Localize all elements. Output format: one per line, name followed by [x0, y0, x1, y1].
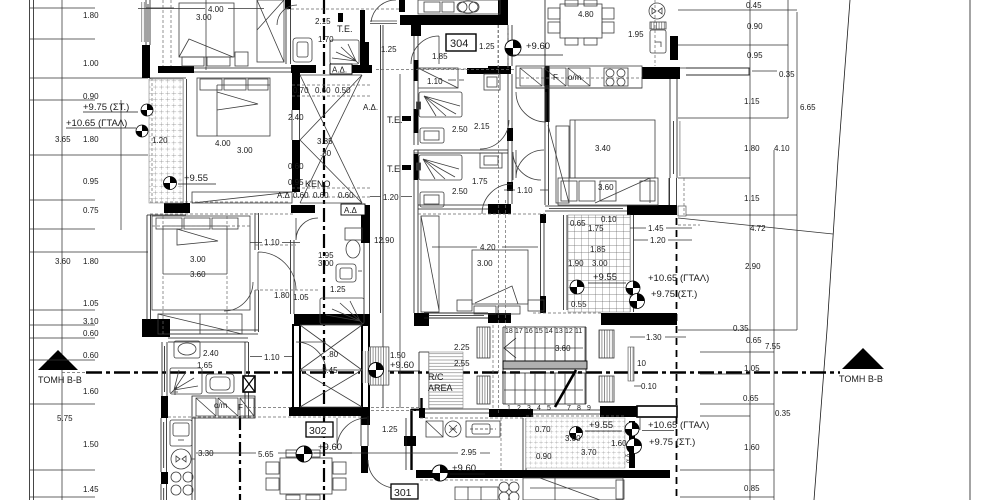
- elevator X box lower: [300, 370, 362, 407]
- svg-text:7.55: 7.55: [765, 342, 781, 351]
- wall elevator bottom band: [289, 407, 370, 416]
- dashed line top rooms: [163, 0, 516, 70]
- wall window right bedroom bottom: [545, 206, 627, 211]
- black X box bath-bl: [243, 376, 255, 392]
- lightwell left line: [381, 25, 384, 408]
- stair landing bar: [503, 361, 587, 369]
- wall counter right apt bottom line: [516, 87, 642, 89]
- svg-text:1.10: 1.10: [264, 238, 280, 247]
- stair walking lines: [504, 348, 583, 390]
- balcony top-left tile hatch: [149, 79, 183, 203]
- svg-text:3.85: 3.85: [317, 137, 333, 146]
- svg-text:4: 4: [537, 405, 541, 412]
- leader bottom-right parapet: [640, 417, 674, 431]
- svg-text:1.50: 1.50: [83, 440, 99, 449]
- counter boxes o/m F bottom-left: [196, 398, 254, 416]
- svg-text:1.15: 1.15: [744, 97, 760, 106]
- svg-text:1.90: 1.90: [568, 259, 584, 268]
- wall shaft right top vertical b: [360, 42, 369, 68]
- svg-text:1.80: 1.80: [274, 291, 290, 300]
- wall stair bottom left: [489, 409, 533, 417]
- svg-text:1.80: 1.80: [83, 257, 99, 266]
- shower bath-bl: [170, 368, 202, 395]
- svg-text:1.05: 1.05: [293, 293, 309, 302]
- wall WC bottom band: [294, 314, 370, 325]
- svg-text:1.20: 1.20: [383, 193, 399, 202]
- window sill hatch right ext: [677, 121, 681, 176]
- dashed lines shaft rows: [292, 85, 370, 197]
- cabinet 304 right: [484, 74, 500, 90]
- left page border double line: [30, 0, 34, 500]
- wall bath-bl right: [245, 342, 249, 418]
- wall window right ext: [670, 117, 677, 178]
- door arc 302: [337, 418, 367, 448]
- door arc bed3: [258, 252, 296, 290]
- door arc bathroom 304: [480, 120, 509, 149]
- svg-text:1.75: 1.75: [588, 224, 604, 233]
- door threshold corridor top: [370, 21, 397, 24]
- wall shaft left v2: [292, 140, 300, 192]
- svg-text:18: 18: [505, 328, 513, 335]
- svg-text:15: 15: [535, 328, 543, 335]
- svg-text:0.60: 0.60: [313, 191, 329, 200]
- wall corridor bridge outline: [369, 347, 389, 385]
- svg-text:4.20: 4.20: [480, 243, 496, 252]
- svg-text:5.65: 5.65: [258, 450, 274, 459]
- svg-text:2.45: 2.45: [322, 366, 338, 375]
- small ledge box right of corner: [678, 206, 686, 216]
- pier hatch bottom-right: [599, 376, 614, 402]
- svg-text:o/m: o/m: [214, 401, 228, 410]
- svg-text:1: 1: [507, 405, 511, 412]
- wall stair bottom right: [600, 406, 637, 417]
- wall 302 right vertical: [361, 446, 368, 473]
- sofa-bed 303: [457, 250, 544, 314]
- wall WC mid left: [291, 240, 295, 314]
- wall elevator right: [362, 325, 369, 408]
- benchmark +10.65 balcony-b: [625, 422, 639, 436]
- svg-text:0.10: 0.10: [601, 215, 617, 224]
- svg-text:1.60: 1.60: [83, 387, 99, 396]
- svg-text:2.40: 2.40: [203, 349, 219, 358]
- svg-text:16: 16: [525, 328, 533, 335]
- svg-text:1.45: 1.45: [83, 485, 99, 494]
- property boundary slant line: [814, 0, 850, 500]
- svg-text:0.70: 0.70: [293, 86, 309, 95]
- svg-text:1.60: 1.60: [611, 439, 627, 448]
- benchmark +9.60 top center: [505, 40, 521, 56]
- tub bath-bl: [206, 374, 234, 393]
- dashed bold vertical right balcony projection: [676, 218, 678, 500]
- wall kitchen column right: [192, 418, 195, 500]
- svg-text:3.00: 3.00: [592, 259, 608, 268]
- room box 302: [306, 422, 333, 437]
- wall right apt vertical top: [670, 36, 678, 60]
- svg-text:3.10: 3.10: [83, 317, 99, 326]
- svg-text:+9.75 (ΣΤ.): +9.75 (ΣΤ.): [649, 437, 695, 448]
- wall bed1/bath divider: [286, 0, 291, 64]
- wall bottom long band: [416, 470, 670, 478]
- wall bed3 right + door gap: [255, 213, 259, 332]
- svg-text:3.70: 3.70: [581, 448, 597, 457]
- closet 301: [455, 487, 498, 500]
- svg-text:3.40: 3.40: [595, 144, 611, 153]
- level +9.60 top: [510, 41, 563, 55]
- wall elevator left: [293, 325, 300, 408]
- svg-text:+9.55: +9.55: [589, 420, 613, 431]
- svg-text:1.80: 1.80: [83, 11, 99, 20]
- wall 304 left black segs: [414, 60, 419, 81]
- bed 301 bottom: [523, 478, 624, 500]
- stair arrow diagonal: [555, 370, 576, 407]
- wall balcony1 outline: [150, 78, 186, 203]
- level +9.55 balcony1: [178, 173, 216, 184]
- wall landing bottom thin: [424, 409, 489, 413]
- parapet box bottom right: [637, 406, 677, 417]
- svg-text:0.65: 0.65: [746, 336, 762, 345]
- wall shaft right top vertical a: [360, 10, 365, 42]
- svg-text:7: 7: [567, 405, 571, 412]
- door arc corridor top: [371, 0, 396, 22]
- benchmark +10.65 balcony-c: [626, 281, 640, 295]
- svg-text:Α.Δ.: Α.Δ.: [332, 66, 347, 75]
- wall 304 notch: [411, 25, 421, 36]
- svg-text:9: 9: [587, 405, 591, 412]
- level +9.55 balcony-c: [588, 272, 626, 283]
- wall right apt mid outline (door): [669, 178, 677, 205]
- wall window 303 bottom: [424, 313, 488, 318]
- benchmark +9.75 balcony-b: [627, 439, 642, 454]
- benchmark +9.75 left: [141, 104, 153, 116]
- svg-text:1.70: 1.70: [318, 35, 334, 44]
- wall window left top: [146, 0, 150, 45]
- benchmark +9.55 balcony-c: [570, 280, 584, 294]
- benchmark +9.60 corridor: [369, 363, 384, 378]
- svg-text:8: 8: [577, 405, 581, 412]
- svg-text:TOMH B-B: TOMH B-B: [839, 374, 883, 384]
- wall window left bottom: [161, 484, 167, 500]
- svg-text:1.10: 1.10: [517, 186, 533, 195]
- elevator X box upper: [300, 325, 362, 370]
- svg-text:1.00: 1.00: [83, 59, 99, 68]
- wall WC mid right: [364, 243, 370, 314]
- stair walk chevron: [504, 338, 516, 358]
- line top-left room: [146, 7, 174, 9]
- right dim lines vertical: [400, 0, 797, 500]
- svg-text:0.85: 0.85: [744, 484, 760, 493]
- svg-text:3.00: 3.00: [190, 255, 206, 264]
- wall stair top window: [424, 313, 488, 318]
- svg-text:1.75: 1.75: [472, 177, 488, 186]
- AD box top: [330, 64, 352, 75]
- wall 303 bottom seg: [488, 313, 511, 323]
- svg-text:3.65: 3.65: [55, 135, 71, 144]
- 302 kitchen F + sink circle: [426, 421, 500, 437]
- svg-text:1.80: 1.80: [744, 144, 760, 153]
- svg-text:1.15: 1.15: [744, 194, 760, 203]
- svg-text:+9.60: +9.60: [526, 41, 550, 52]
- wall right apt left: [545, 0, 549, 205]
- wall shaft corner bottom-left: [291, 205, 315, 213]
- dim leaders small: [250, 80, 548, 243]
- closet 304 diag: [418, 68, 458, 88]
- dining table 302: [266, 450, 346, 500]
- svg-text:1.80: 1.80: [83, 135, 99, 144]
- svg-text:13: 13: [555, 328, 563, 335]
- svg-text:.80: .80: [320, 149, 332, 158]
- wall right bedroom bottom corner: [627, 205, 677, 215]
- wall stub top corridor: [399, 0, 405, 12]
- svg-text:2.15: 2.15: [474, 122, 490, 131]
- pier hatch bottom-left: [477, 376, 490, 404]
- svg-text:2.40: 2.40: [288, 113, 304, 122]
- svg-text:+9.75 (ΣΤ.): +9.75 (ΣΤ.): [83, 102, 129, 113]
- wall shaft right lower vertical: [361, 205, 370, 243]
- svg-text:0.95: 0.95: [747, 51, 763, 60]
- dim leader lines right mid: [630, 71, 777, 386]
- wall shaft left v1: [292, 73, 300, 110]
- wall 301 left thick: [411, 398, 425, 470]
- svg-text:2.25: 2.25: [454, 343, 470, 352]
- svg-text:o/m: o/m: [568, 73, 582, 82]
- bed 3 lower-left: [152, 216, 250, 334]
- stair treads lower flight: [505, 373, 585, 404]
- bath-bl basin: [174, 341, 200, 358]
- dim slant 4.72 line: [678, 218, 833, 234]
- balcony center tile hatch: [568, 215, 630, 312]
- svg-text:301: 301: [394, 487, 412, 499]
- wall living 303 right: [541, 215, 545, 313]
- door arc WC mid: [296, 218, 318, 240]
- section vertical dash-dot bottom left: [239, 416, 241, 500]
- wall balcony-c left: [564, 215, 568, 310]
- svg-text:0.90: 0.90: [747, 22, 763, 31]
- svg-text:2.15: 2.15: [315, 17, 331, 26]
- basin mid: [336, 264, 362, 282]
- door arc bathroom 303: [482, 184, 512, 214]
- svg-text:1.50: 1.50: [390, 351, 406, 360]
- svg-text:+9.55: +9.55: [184, 173, 208, 184]
- svg-text:0.60: 0.60: [293, 191, 309, 200]
- svg-text:4.80: 4.80: [578, 10, 594, 19]
- svg-text:1.25: 1.25: [381, 45, 397, 54]
- svg-text:0.60: 0.60: [338, 191, 354, 200]
- wall balcony-c right: [630, 215, 634, 312]
- svg-text:0.60: 0.60: [83, 351, 99, 360]
- svg-text:0.35: 0.35: [779, 70, 795, 79]
- wall 304 top: [400, 15, 498, 25]
- wall bath divider 304: [414, 150, 508, 153]
- svg-text:4.10: 4.10: [774, 144, 790, 153]
- level +9.55 balcony-b: [585, 420, 622, 431]
- door arc 301 right: [368, 460, 396, 488]
- svg-text:0.65: 0.65: [570, 219, 586, 228]
- svg-text:Α.Δ: Α.Δ: [344, 206, 358, 215]
- level +9.60 301: [450, 463, 485, 474]
- svg-text:2.55: 2.55: [454, 359, 470, 368]
- level +9.75 left: [83, 102, 138, 113]
- cabinet 303 right: [480, 153, 502, 168]
- svg-text:5: 5: [547, 405, 551, 412]
- svg-text:1.05: 1.05: [744, 364, 760, 373]
- svg-text:2.90: 2.90: [745, 262, 761, 271]
- section line TOMH B-B horizontal: [86, 371, 840, 373]
- svg-text:14: 14: [545, 328, 553, 335]
- washer 304: [420, 128, 444, 143]
- wall balcony1 bottom: [164, 203, 190, 213]
- svg-text:12: 12: [565, 328, 573, 335]
- benchmark +10.65 left: [136, 125, 148, 137]
- svg-text:Τ.E: Τ.E: [387, 164, 400, 174]
- svg-text:3: 3: [527, 405, 531, 412]
- svg-text:Α.Δ: Α.Δ: [277, 191, 291, 200]
- shaft KENO inner lines: [300, 75, 362, 203]
- wall bed3 bottom: [170, 330, 258, 334]
- benchmark +9.60 301: [432, 465, 448, 481]
- wall stair left: [419, 352, 429, 408]
- dashed lines right ext: [533, 178, 700, 313]
- AD box mid: [341, 204, 365, 215]
- wall window left low: [161, 418, 167, 472]
- svg-text:1.30: 1.30: [646, 333, 662, 342]
- svg-text:17: 17: [515, 328, 523, 335]
- svg-text:+9.55: +9.55: [593, 272, 617, 283]
- wall 303 top seg: [488, 204, 511, 214]
- svg-text:1.45: 1.45: [648, 224, 664, 233]
- svg-text:302: 302: [309, 425, 327, 437]
- wall shaft left thin: [292, 110, 300, 140]
- room box 301: [391, 484, 418, 499]
- svg-text:1.25: 1.25: [382, 425, 398, 434]
- svg-text:1.10: 1.10: [264, 353, 280, 362]
- section vertical dash-dot through shaft: [323, 0, 325, 500]
- door arc bath-bl: [296, 342, 326, 372]
- svg-text:0.70: 0.70: [535, 425, 551, 434]
- wall 304/303 right: [508, 25, 512, 204]
- svg-text:6.65: 6.65: [800, 103, 816, 112]
- svg-text:F: F: [238, 403, 243, 412]
- wall small top T.E.: [338, 13, 343, 22]
- dashed lines balcony1: [150, 78, 293, 214]
- svg-text:F: F: [553, 73, 558, 82]
- pier hatch top-right: [599, 330, 614, 358]
- shower 303: [417, 155, 463, 180]
- svg-text:+9.60: +9.60: [390, 360, 414, 371]
- svg-text:0.65: 0.65: [743, 394, 759, 403]
- R/C area horizontal hatch: [429, 352, 463, 408]
- shower mid bottom: [320, 298, 364, 324]
- left dimension vertical line: [61, 0, 63, 500]
- svg-text:Τ.E.: Τ.E.: [337, 24, 353, 34]
- svg-text:.80: .80: [327, 350, 339, 359]
- svg-text:4.00: 4.00: [215, 139, 231, 148]
- svg-text:0.50: 0.50: [335, 86, 351, 95]
- stair flight borders: [503, 327, 586, 404]
- svg-text:3.60: 3.60: [190, 270, 206, 279]
- elevator right wall hatch: [363, 351, 369, 383]
- shaft KENO X cross: [300, 75, 362, 203]
- svg-text:1.25: 1.25: [330, 285, 346, 294]
- svg-text:1.20: 1.20: [650, 236, 666, 245]
- wall balcony right bar: [629, 421, 635, 468]
- dashed lines 302 area: [168, 408, 520, 481]
- svg-text:3.60: 3.60: [598, 183, 614, 192]
- wall horiz shaft top-right: [351, 65, 372, 73]
- svg-text:0.45: 0.45: [746, 1, 762, 10]
- svg-text:0.90: 0.90: [83, 92, 99, 101]
- closet bed1: [257, 0, 284, 62]
- svg-text:TOMH B-B: TOMH B-B: [38, 375, 82, 385]
- door arc bed3 inner: [224, 282, 253, 311]
- left dim ticks: [30, 8, 148, 497]
- wall balcony-b left: [523, 418, 526, 470]
- svg-text:3.00: 3.00: [196, 13, 212, 22]
- dining table top right: [548, 0, 614, 45]
- svg-text:0.60: 0.60: [83, 329, 99, 338]
- svg-text:11: 11: [575, 328, 582, 335]
- dim line 4.00 top: [138, 0, 264, 70]
- benchmark +9.55 balcony1: [164, 177, 177, 190]
- svg-text:2.50: 2.50: [452, 125, 468, 134]
- wall bath-bl top: [168, 338, 248, 342]
- svg-text:3.00: 3.00: [237, 146, 253, 155]
- wall left top vertical: [142, 45, 150, 78]
- svg-text:3.00: 3.00: [477, 259, 493, 268]
- dashed section verticals center: [499, 25, 506, 415]
- wall 304 left: [414, 36, 418, 313]
- svg-text:1.60: 1.60: [744, 443, 760, 452]
- svg-text:1.25: 1.25: [479, 42, 495, 51]
- right page border line: [969, 0, 971, 500]
- dashed lines mid rooms: [255, 214, 545, 290]
- benchmark +9.75 balcony-c: [630, 294, 645, 309]
- wall living bottom-left corner: [414, 313, 429, 326]
- corridor bridge vertical hatch: [369, 347, 389, 385]
- svg-text:1.95: 1.95: [628, 30, 644, 39]
- wall right ext outline upper: [670, 79, 677, 117]
- wall left seg kitchen: [161, 472, 168, 484]
- level +10.65 left: [66, 118, 136, 129]
- level +9.60 corridor: [388, 360, 420, 371]
- svg-text:0.95: 0.95: [83, 177, 99, 186]
- svg-text:0.60: 0.60: [315, 86, 331, 95]
- wall stair bottom window: [533, 410, 600, 414]
- balcony bottom dashed tile hatch: [526, 418, 625, 468]
- wall horiz shaft top-left: [291, 65, 316, 73]
- svg-text:0.75: 0.75: [83, 206, 99, 215]
- door arc corridor to bedroom right: [513, 152, 541, 180]
- wall 304 mid horiz b: [488, 66, 511, 74]
- svg-text:1.85: 1.85: [590, 245, 606, 254]
- wall counter row outline: [192, 396, 255, 418]
- svg-text:3.00: 3.00: [318, 259, 334, 268]
- dashed projection bed3: [152, 216, 250, 334]
- stair dashed left: [492, 325, 494, 408]
- svg-text:1.85: 1.85: [432, 52, 448, 61]
- kitchen unit right top (sink col): [649, 3, 666, 53]
- svg-text:4.72: 4.72: [750, 224, 766, 233]
- benchmark +9.55 balcony-b: [570, 427, 583, 440]
- door arc living 303: [516, 150, 544, 178]
- wall bed3 left: [147, 215, 186, 320]
- wall right apt horiz chunk: [642, 67, 680, 79]
- svg-text:2: 2: [517, 405, 521, 412]
- wall thin between bedrooms top-left: [194, 68, 291, 72]
- svg-text:0.35: 0.35: [775, 409, 791, 418]
- svg-text:0.35: 0.35: [733, 324, 749, 333]
- kitchen top 304 sink+stove: [418, 0, 500, 14]
- svg-text:1.65: 1.65: [197, 361, 213, 370]
